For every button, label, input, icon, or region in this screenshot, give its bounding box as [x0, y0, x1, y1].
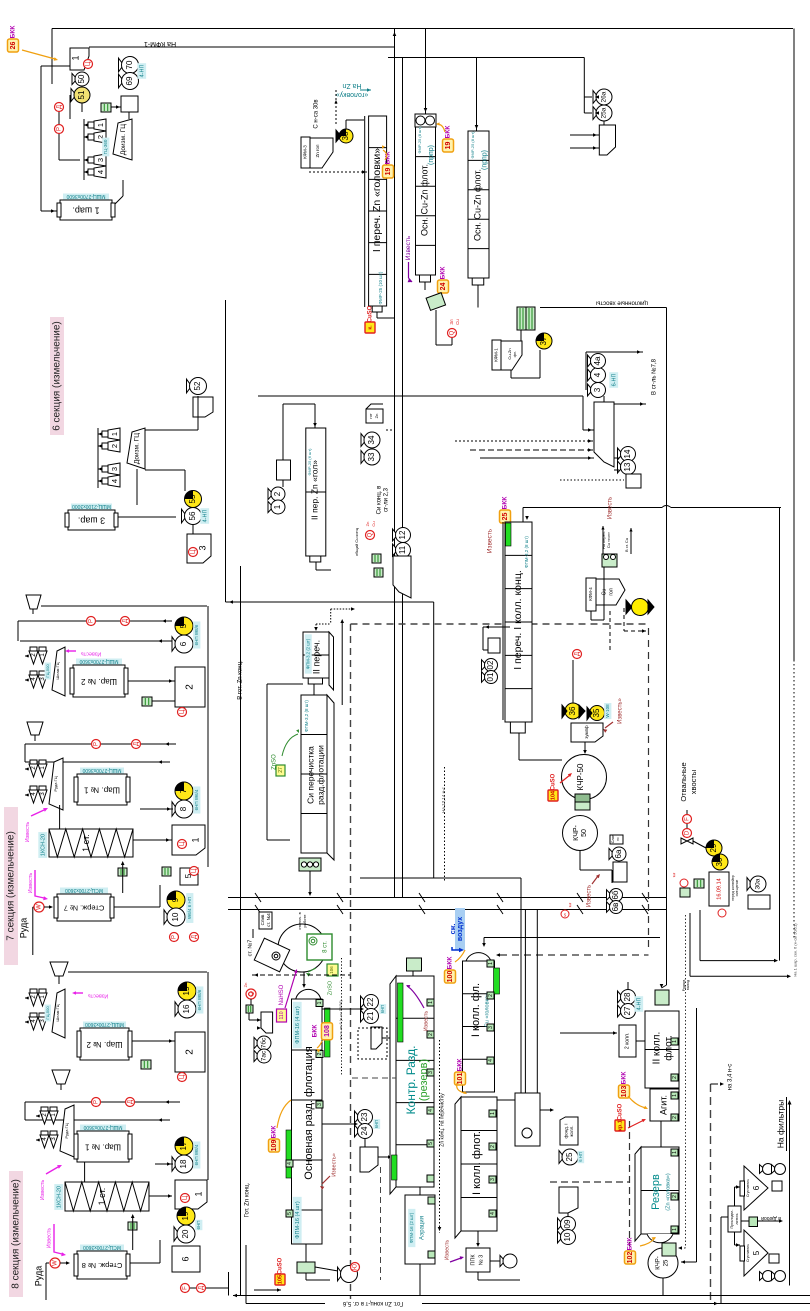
svg-text:ППК: ППК: [470, 1254, 476, 1266]
svg-text:хвосты: хвосты: [689, 770, 698, 794]
svg-text:11: 11: [398, 545, 407, 554]
svg-text:NaHSO: NaHSO: [279, 984, 285, 1005]
svg-text:кр.1: кр.1: [617, 1120, 623, 1131]
svg-text:ст. №7: ст. №7: [247, 940, 253, 957]
svg-text:F: F: [685, 817, 691, 821]
svg-text:Известь: Известь: [46, 1228, 52, 1249]
svg-text:4: 4: [96, 170, 105, 174]
svg-text:ГЦ-360: ГЦ-360: [103, 139, 108, 154]
svg-text:Ц: Ц: [86, 61, 92, 66]
svg-text:Шар. № 2: Шар. № 2: [80, 677, 116, 686]
svg-text:Zn: Zn: [374, 414, 379, 419]
svg-text:1: 1: [70, 55, 80, 60]
svg-text:циклонные хвосты: циклонные хвосты: [596, 299, 648, 305]
svg-text:Zn гол: Zn гол: [315, 144, 320, 157]
svg-text:100: 100: [447, 971, 454, 983]
svg-text:Известь: Известь: [28, 873, 34, 894]
svg-text:«головку»: «головку»: [336, 91, 369, 98]
svg-text:CuSO: CuSO: [551, 773, 557, 790]
svg-text:25: 25: [502, 513, 509, 521]
svg-text:ФПМ-3,2 (2 шт): ФПМ-3,2 (2 шт): [306, 638, 311, 669]
svg-text:8: 8: [179, 806, 188, 811]
svg-text:ФПМ-3,2 (8 шт): ФПМ-3,2 (8 шт): [524, 536, 529, 568]
svg-text:1 шар.: 1 шар.: [72, 206, 99, 216]
svg-text:МСЦ-2700х3600: МСЦ-2700х3600: [83, 1244, 121, 1250]
svg-text:на 3,4 н-с: на 3,4 н-с: [728, 1064, 734, 1091]
svg-text:27: 27: [623, 1006, 632, 1015]
svg-text:I колл. фл.: I колл. фл.: [470, 983, 482, 1037]
svg-text:24: 24: [360, 1126, 369, 1135]
svg-text:ZnSO: ZnSO: [327, 980, 333, 995]
svg-text:Руда ГЦ: Руда ГЦ: [53, 776, 58, 791]
svg-text:8 ст.: 8 ст.: [323, 941, 329, 953]
svg-text:Известь»: Известь»: [618, 697, 624, 723]
svg-text:Cu: Cu: [455, 319, 460, 325]
svg-text:воздух: воздух: [457, 917, 464, 941]
svg-text:W: W: [53, 1260, 59, 1266]
svg-text:15: 15: [182, 986, 191, 995]
svg-text:С н-са 30в: С н-са 30в: [314, 99, 320, 128]
svg-text:Д: Д: [123, 619, 129, 623]
svg-text:7ас: 7ас: [261, 1050, 268, 1061]
svg-text:4а: 4а: [593, 356, 602, 365]
svg-text:Ц: Ц: [183, 1195, 189, 1200]
svg-text:30а: 30а: [755, 878, 762, 889]
svg-text:5: 5: [179, 623, 188, 628]
svg-text:фонд. I: фонд. I: [563, 1123, 568, 1138]
svg-text:1: 1: [428, 1001, 434, 1004]
svg-text:зумпф: зумпф: [584, 725, 589, 739]
svg-text:35: 35: [592, 708, 601, 717]
svg-text:В сг. Cu: В сг. Cu: [624, 538, 629, 552]
svg-text:ГЦ-500: ГЦ-500: [45, 1006, 50, 1020]
svg-text:Известь: Известь: [587, 885, 593, 907]
svg-text:Р: Р: [57, 127, 63, 131]
svg-text:4: 4: [110, 479, 119, 483]
svg-text:вывод: вывод: [686, 980, 690, 990]
svg-text:50: 50: [77, 74, 86, 83]
svg-text:Шлам ГЦ: Шлам ГЦ: [55, 662, 60, 679]
svg-text:Пульподел-: Пульподел-: [730, 1209, 734, 1229]
svg-text:W·108: W·108: [605, 704, 610, 718]
svg-text:колл.: колл.: [569, 1126, 574, 1137]
svg-text:**: **: [674, 872, 680, 877]
svg-text:1: 1: [193, 1191, 203, 1196]
svg-text:Cu «гол»: Cu «гол»: [606, 531, 611, 548]
svg-text:Руда: Руда: [33, 1266, 43, 1286]
svg-text:4-НП: 4-НП: [202, 510, 208, 523]
svg-text:Сгуститель: Сгуститель: [746, 1179, 750, 1197]
svg-text:Слив: Слив: [260, 914, 265, 925]
svg-text:МШЦ-2700х3600: МШЦ-2700х3600: [83, 1124, 122, 1130]
svg-text:МШЦ-2100х3000: МШЦ-2100х3000: [72, 503, 111, 509]
svg-text:CuSO: CuSO: [618, 1103, 624, 1120]
svg-text:Шар. № 2: Шар. № 2: [86, 1040, 122, 1049]
svg-text:2: 2: [672, 1116, 678, 1119]
svg-text:Известь: Известь: [423, 1011, 429, 1032]
svg-text:I переч. Zn «головки»: I переч. Zn «головки»: [371, 148, 383, 252]
svg-text:02: 02: [486, 660, 495, 669]
svg-text:25: 25: [565, 1152, 574, 1161]
svg-text:(Zn «головка»): (Zn «головка»): [665, 1173, 671, 1211]
svg-text:2: 2: [672, 1195, 678, 1198]
svg-text:ФПМ-16 (2 шт): ФПМ-16 (2 шт): [409, 1212, 414, 1243]
svg-text:36: 36: [568, 706, 577, 715]
svg-text:5: 5: [428, 1142, 434, 1145]
svg-text:БКК: БКК: [445, 126, 452, 139]
svg-text:I колл. флот.: I колл. флот.: [471, 1131, 483, 1195]
svg-text:1КСН-20: 1КСН-20: [56, 1186, 62, 1208]
svg-text:БКК: БКК: [627, 1238, 634, 1251]
svg-text:19: 19: [181, 1211, 190, 1220]
svg-text:(резерв): (резерв): [418, 1059, 430, 1101]
svg-text:103: 103: [621, 1086, 628, 1098]
svg-text:смещение: смещение: [735, 880, 739, 897]
svg-text:МСЦ-2700х3600: МСЦ-2700х3600: [65, 887, 103, 893]
svg-text:БКК: БКК: [447, 957, 454, 970]
svg-text:КФМ-3: КФМ-3: [303, 145, 308, 159]
svg-text:Отвальные: Отвальные: [679, 762, 688, 801]
svg-text:CuSO: CuSO: [278, 1257, 284, 1274]
svg-text:Известь: Известь: [81, 651, 102, 657]
svg-text:Шлам ГЦ: Шлам ГЦ: [55, 1004, 60, 1021]
svg-text:105: 105: [277, 1275, 283, 1284]
svg-text:4: 4: [428, 1109, 434, 1112]
svg-text:1 ст.: 1 ст.: [97, 1188, 107, 1206]
svg-text:50: 50: [581, 829, 588, 837]
svg-text:Д: Д: [575, 652, 581, 656]
svg-text:6б: 6б: [611, 890, 620, 899]
svg-text:1: 1: [672, 1151, 678, 1154]
svg-text:101: 101: [457, 1073, 464, 1085]
svg-text:12: 12: [398, 530, 407, 539]
svg-text:7бс: 7бс: [260, 1037, 268, 1048]
svg-text:Осн. Cu-Zn флот.: Осн. Cu-Zn флот.: [419, 164, 429, 236]
svg-text:ФМР-25 (6 шт): ФМР-25 (6 шт): [307, 448, 312, 476]
svg-text:к.: к.: [367, 325, 373, 330]
svg-text:На 13,14 н-с: На 13,14 н-с: [441, 786, 446, 812]
svg-text:34: 34: [367, 435, 376, 444]
svg-text:**: **: [570, 902, 576, 907]
svg-text:2: 2: [317, 1052, 323, 1055]
svg-text:CuSO: CuSO: [368, 305, 374, 322]
svg-text:25а: 25а: [601, 107, 608, 118]
svg-text:9: 9: [171, 897, 180, 902]
svg-text:МШЦ-2700х3600: МШЦ-2700х3600: [82, 767, 121, 773]
svg-text:W6/4 6 НП: W6/4 6 НП: [187, 897, 192, 919]
svg-text:3: 3: [317, 1103, 323, 1106]
svg-text:6НП W8/6: 6НП W8/6: [197, 989, 202, 1010]
svg-text:104: 104: [550, 790, 556, 800]
svg-text:3: 3: [96, 158, 105, 162]
svg-text:2: 2: [110, 444, 119, 448]
svg-text:7: 7: [179, 788, 188, 793]
svg-text:110: 110: [279, 1011, 285, 1019]
svg-text:КФМ-4: КФМ-4: [588, 587, 593, 601]
svg-text:БКК: БКК: [502, 497, 509, 510]
svg-text:3: 3: [428, 1071, 434, 1074]
svg-text:Си перечистка: Си перечистка: [305, 746, 315, 804]
svg-text:1: 1: [190, 837, 200, 842]
svg-text:09: 09: [563, 1219, 572, 1228]
svg-text:52: 52: [193, 381, 202, 390]
svg-text:Резерв: Резерв: [650, 1174, 662, 1210]
svg-text:Известь: Известь: [487, 528, 494, 553]
svg-text:14: 14: [623, 449, 632, 458]
svg-text:ФПМ-16 (4 шт): ФПМ-16 (4 шт): [295, 1201, 301, 1239]
svg-text:70: 70: [125, 60, 134, 69]
svg-text:2: 2: [185, 1049, 196, 1055]
svg-text:1: 1: [672, 1040, 678, 1043]
svg-text:2: 2: [490, 1145, 496, 1148]
svg-text:13: 13: [623, 462, 632, 471]
svg-text:Ц: Ц: [192, 868, 198, 873]
svg-text:Руда ГЦ: Руда ГЦ: [64, 1123, 69, 1138]
svg-text:на сг-ли 6 (н-сы 55/56): на сг-ли 6 (н-сы 55/56): [339, 1000, 343, 1040]
svg-text:На фильтры: На фильтры: [775, 1100, 785, 1148]
svg-text:5: 5: [287, 1212, 293, 1215]
svg-text:МШЦ-2700х3600: МШЦ-2700х3600: [85, 1021, 124, 1027]
svg-text:Д: Д: [57, 105, 63, 109]
svg-text:1: 1: [110, 432, 119, 436]
svg-text:6-НП: 6-НП: [611, 374, 617, 387]
svg-text:БКК: БКК: [312, 1025, 319, 1038]
svg-text:Zn конц. на перечистку: Zn конц. на перечистку: [439, 1093, 445, 1147]
svg-text:ФМР-25 (10 шт): ФМР-25 (10 шт): [378, 271, 383, 304]
svg-text:28: 28: [623, 992, 632, 1001]
svg-text:51: 51: [77, 90, 86, 99]
svg-text:Шар. № 1: Шар. № 1: [83, 785, 119, 794]
svg-text:17: 17: [179, 1141, 188, 1150]
svg-text:22: 22: [366, 997, 375, 1006]
svg-text:4-НП: 4-НП: [636, 998, 642, 1011]
svg-text:16: 16: [182, 1004, 191, 1013]
svg-text:БКК: БКК: [10, 26, 17, 39]
svg-text:На КФМ-1: На КФМ-1: [144, 40, 176, 47]
svg-text:Гот. Zn конц.: Гот. Zn конц.: [245, 1182, 251, 1217]
svg-text:6: 6: [752, 1185, 761, 1190]
svg-text:1: 1: [317, 1001, 323, 1004]
svg-text:Известь: Известь: [40, 1180, 46, 1201]
svg-text:ФМР-25 (8 шт): ФМР-25 (8 шт): [417, 126, 422, 154]
svg-text:4: 4: [490, 1212, 496, 1215]
svg-text:4: 4: [593, 372, 602, 377]
svg-text:Основная разд. флотация: Основная разд. флотация: [303, 1046, 315, 1179]
svg-text:1: 1: [488, 962, 494, 965]
svg-text:26: 26: [10, 42, 17, 50]
svg-text:Известь: Известь: [405, 235, 412, 260]
svg-text:В гот. Zn конц.: В гот. Zn конц.: [238, 660, 244, 700]
svg-text:Zn: Zn: [243, 983, 248, 988]
svg-text:6в: 6в: [611, 903, 620, 912]
svg-text:16.09.14: 16.09.14: [716, 878, 722, 899]
svg-text:Аэрация: Аэрация: [420, 1216, 426, 1240]
svg-text:3 шар.: 3 шар.: [78, 516, 105, 526]
svg-text:6: 6: [179, 641, 188, 646]
svg-text:Стерж. № 8: Стерж. № 8: [82, 1261, 123, 1270]
svg-text:6НП: 6НП: [374, 1120, 379, 1128]
svg-text:37: 37: [539, 336, 548, 345]
svg-text:На 1 шар. сек. 6 (н-сы 50/51): На 1 шар. сек. 6 (н-сы 50/51): [793, 923, 798, 977]
svg-text:109: 109: [271, 1140, 278, 1152]
svg-text:Известь: Известь: [444, 1240, 450, 1261]
svg-text:Р: Р: [94, 1100, 100, 1104]
svg-text:БКК: БКК: [457, 1059, 464, 1072]
svg-text:БКК: БКК: [440, 267, 447, 280]
svg-text:6НП W8/6: 6НП W8/6: [194, 624, 199, 645]
svg-text:№ 3: № 3: [478, 1255, 484, 1266]
svg-text:1: 1: [273, 504, 282, 509]
svg-text:работе: работе: [302, 914, 307, 928]
svg-text:26а: 26а: [601, 91, 608, 102]
svg-text:Р: Р: [94, 742, 100, 746]
svg-text:Q: Q: [450, 330, 456, 335]
svg-text:Zn: Zn: [365, 522, 370, 527]
svg-text:1: 1: [672, 1094, 678, 1097]
svg-text:56: 56: [188, 511, 197, 520]
svg-text:1: 1: [672, 1228, 678, 1231]
svg-text:фл.: фл.: [512, 351, 517, 358]
svg-text:10: 10: [563, 1232, 572, 1241]
svg-text:Слив: Слив: [611, 835, 615, 844]
svg-text:6 НП: 6 НП: [578, 1152, 583, 1162]
svg-text:Д: Д: [128, 1100, 134, 1104]
svg-text:6а: 6а: [614, 849, 623, 858]
svg-text:Ю: Ю: [353, 1264, 359, 1270]
svg-text:Известь: Известь: [608, 497, 614, 519]
svg-text:Ц: Ц: [180, 1074, 186, 1079]
svg-text:5: 5: [752, 1250, 761, 1255]
svg-text:2 колл.: 2 колл.: [624, 1033, 630, 1049]
svg-text:108: 108: [324, 1025, 331, 1037]
svg-text:Зл: Зл: [449, 319, 454, 325]
svg-text:21: 21: [366, 1011, 375, 1020]
svg-text:19: 19: [385, 168, 392, 176]
svg-text:Доизм. ГЦ: Доизм. ГЦ: [134, 433, 141, 464]
svg-text:6НП W6/4: 6НП W6/4: [194, 789, 199, 810]
svg-text:10: 10: [171, 912, 180, 921]
svg-text:ФПМ-3,2 (8 шт): ФПМ-3,2 (8 шт): [304, 700, 309, 732]
svg-text:2: 2: [273, 491, 282, 496]
svg-text:25: 25: [664, 1259, 670, 1266]
svg-text:гол: гол: [608, 588, 614, 595]
svg-text:(прпр): (прпр): [428, 145, 435, 165]
svg-text:6НП W8/4: 6НП W8/4: [194, 1144, 199, 1165]
svg-text:Cu: Cu: [371, 521, 376, 526]
svg-text:3: 3: [110, 467, 119, 471]
svg-text:На Zn: На Zn: [342, 82, 361, 89]
svg-text:4: 4: [287, 1162, 293, 1165]
svg-text:W: W: [37, 904, 43, 910]
svg-text:3: 3: [197, 545, 207, 550]
svg-text:7 секция (измельчение): 7 секция (измельчение): [6, 831, 17, 941]
svg-text:1: 1: [490, 1112, 496, 1115]
svg-text:(прпр): (прпр): [481, 150, 488, 170]
svg-text:2: 2: [185, 684, 196, 690]
svg-text:нс: нс: [616, 837, 620, 841]
svg-text:ГЦ-500: ГЦ-500: [45, 664, 50, 678]
svg-text:Известь»: Известь»: [331, 1153, 337, 1177]
svg-text:1: 1: [96, 123, 105, 127]
svg-text:Р: Р: [89, 619, 95, 623]
svg-text:4: 4: [488, 1059, 494, 1062]
svg-text:В сг-ль №7,8: В сг-ль №7,8: [651, 358, 658, 395]
svg-text:38: 38: [341, 131, 350, 140]
svg-text:69: 69: [125, 76, 134, 85]
svg-text:ст. №4: ст. №4: [266, 913, 271, 927]
svg-text:Q: Q: [368, 532, 374, 537]
svg-text:18: 18: [179, 1159, 188, 1168]
svg-text:29: 29: [709, 843, 718, 852]
svg-text:гот: гот: [368, 413, 373, 419]
svg-text:6 секция (измельчение): 6 секция (измельчение): [52, 321, 63, 431]
svg-text:2: 2: [428, 1033, 434, 1036]
svg-text:3: 3: [490, 1178, 496, 1181]
svg-text:23: 23: [360, 1112, 369, 1121]
svg-text:33: 33: [367, 452, 376, 461]
svg-text:20: 20: [181, 1229, 190, 1238]
svg-text:МШЦ-2700х3600: МШЦ-2700х3600: [79, 658, 118, 664]
svg-text:I переч. I колл. конц.: I переч. I колл. конц.: [512, 570, 524, 670]
svg-text:19: 19: [445, 142, 452, 150]
svg-text:Доизм. ГЦ: Доизм. ГЦ: [120, 124, 127, 155]
svg-text:2: 2: [488, 994, 494, 997]
svg-text:6НП: 6НП: [380, 1005, 385, 1013]
svg-text:Осн. Cu-Zn флот.: Осн. Cu-Zn флот.: [472, 169, 482, 241]
svg-text:общий Cu конц: общий Cu конц: [354, 527, 359, 556]
svg-text:1 ст.: 1 ст.: [81, 834, 91, 852]
svg-text:01: 01: [486, 672, 495, 681]
svg-text:ФПМ-16 (4 шт): ФПМ-16 (4 шт): [295, 1006, 301, 1044]
svg-text:6НП: 6НП: [196, 1221, 201, 1230]
svg-text:литель: литель: [735, 1213, 739, 1224]
svg-text:30: 30: [715, 857, 724, 866]
svg-text:Стерж. № 7: Стерж. № 7: [64, 904, 105, 913]
svg-text:D: D: [685, 830, 691, 835]
svg-text:Р: Р: [172, 935, 178, 939]
svg-text:КЧР-: КЧР-: [573, 824, 580, 840]
svg-text:Д: Д: [134, 742, 140, 746]
svg-text:ФМР-25 (8 шт): ФМР-25 (8 шт): [470, 131, 475, 159]
svg-text:Контр. Разд.: Контр. Разд.: [404, 1046, 418, 1115]
svg-text:КЧР-50: КЧР-50: [576, 763, 585, 790]
svg-text:27: 27: [278, 767, 284, 773]
svg-text:Шар. № 1: Шар. № 1: [84, 1142, 120, 1151]
svg-text:сг-ли 2,3: сг-ли 2,3: [384, 487, 390, 512]
svg-text:Известь: Известь: [88, 993, 109, 999]
svg-text:8 секция (измельчение): 8 секция (измельчение): [11, 1179, 22, 1289]
svg-text:3: 3: [593, 387, 602, 392]
svg-text:Си конц. в: Си конц. в: [377, 486, 383, 515]
svg-text:Д: Д: [192, 935, 198, 939]
svg-text:Известь: Известь: [25, 822, 31, 843]
svg-text:F: F: [183, 1286, 189, 1290]
svg-text:II колл.: II колл.: [652, 1032, 663, 1065]
svg-text:2: 2: [672, 1076, 678, 1079]
svg-text:Ц: Ц: [180, 709, 186, 714]
svg-text:Д: Д: [199, 1286, 205, 1290]
svg-text:КЧР-: КЧР-: [656, 1256, 662, 1270]
svg-text:Сгуститель: Сгуститель: [746, 1244, 750, 1262]
svg-text:6: 6: [180, 1256, 190, 1261]
svg-text:разд.флотации: разд.флотации: [315, 745, 325, 805]
svg-text:4-НП: 4-НП: [139, 65, 145, 78]
svg-text:1КСН-20: 1КСН-20: [40, 834, 46, 856]
svg-text:106: 106: [329, 966, 334, 974]
svg-text:3: 3: [488, 1026, 494, 1029]
svg-text:Ц: Ц: [191, 549, 197, 554]
svg-text:Гот. Zn конц-т в сг. 5,6: Гот. Zn конц-т в сг. 5,6: [342, 1300, 403, 1306]
